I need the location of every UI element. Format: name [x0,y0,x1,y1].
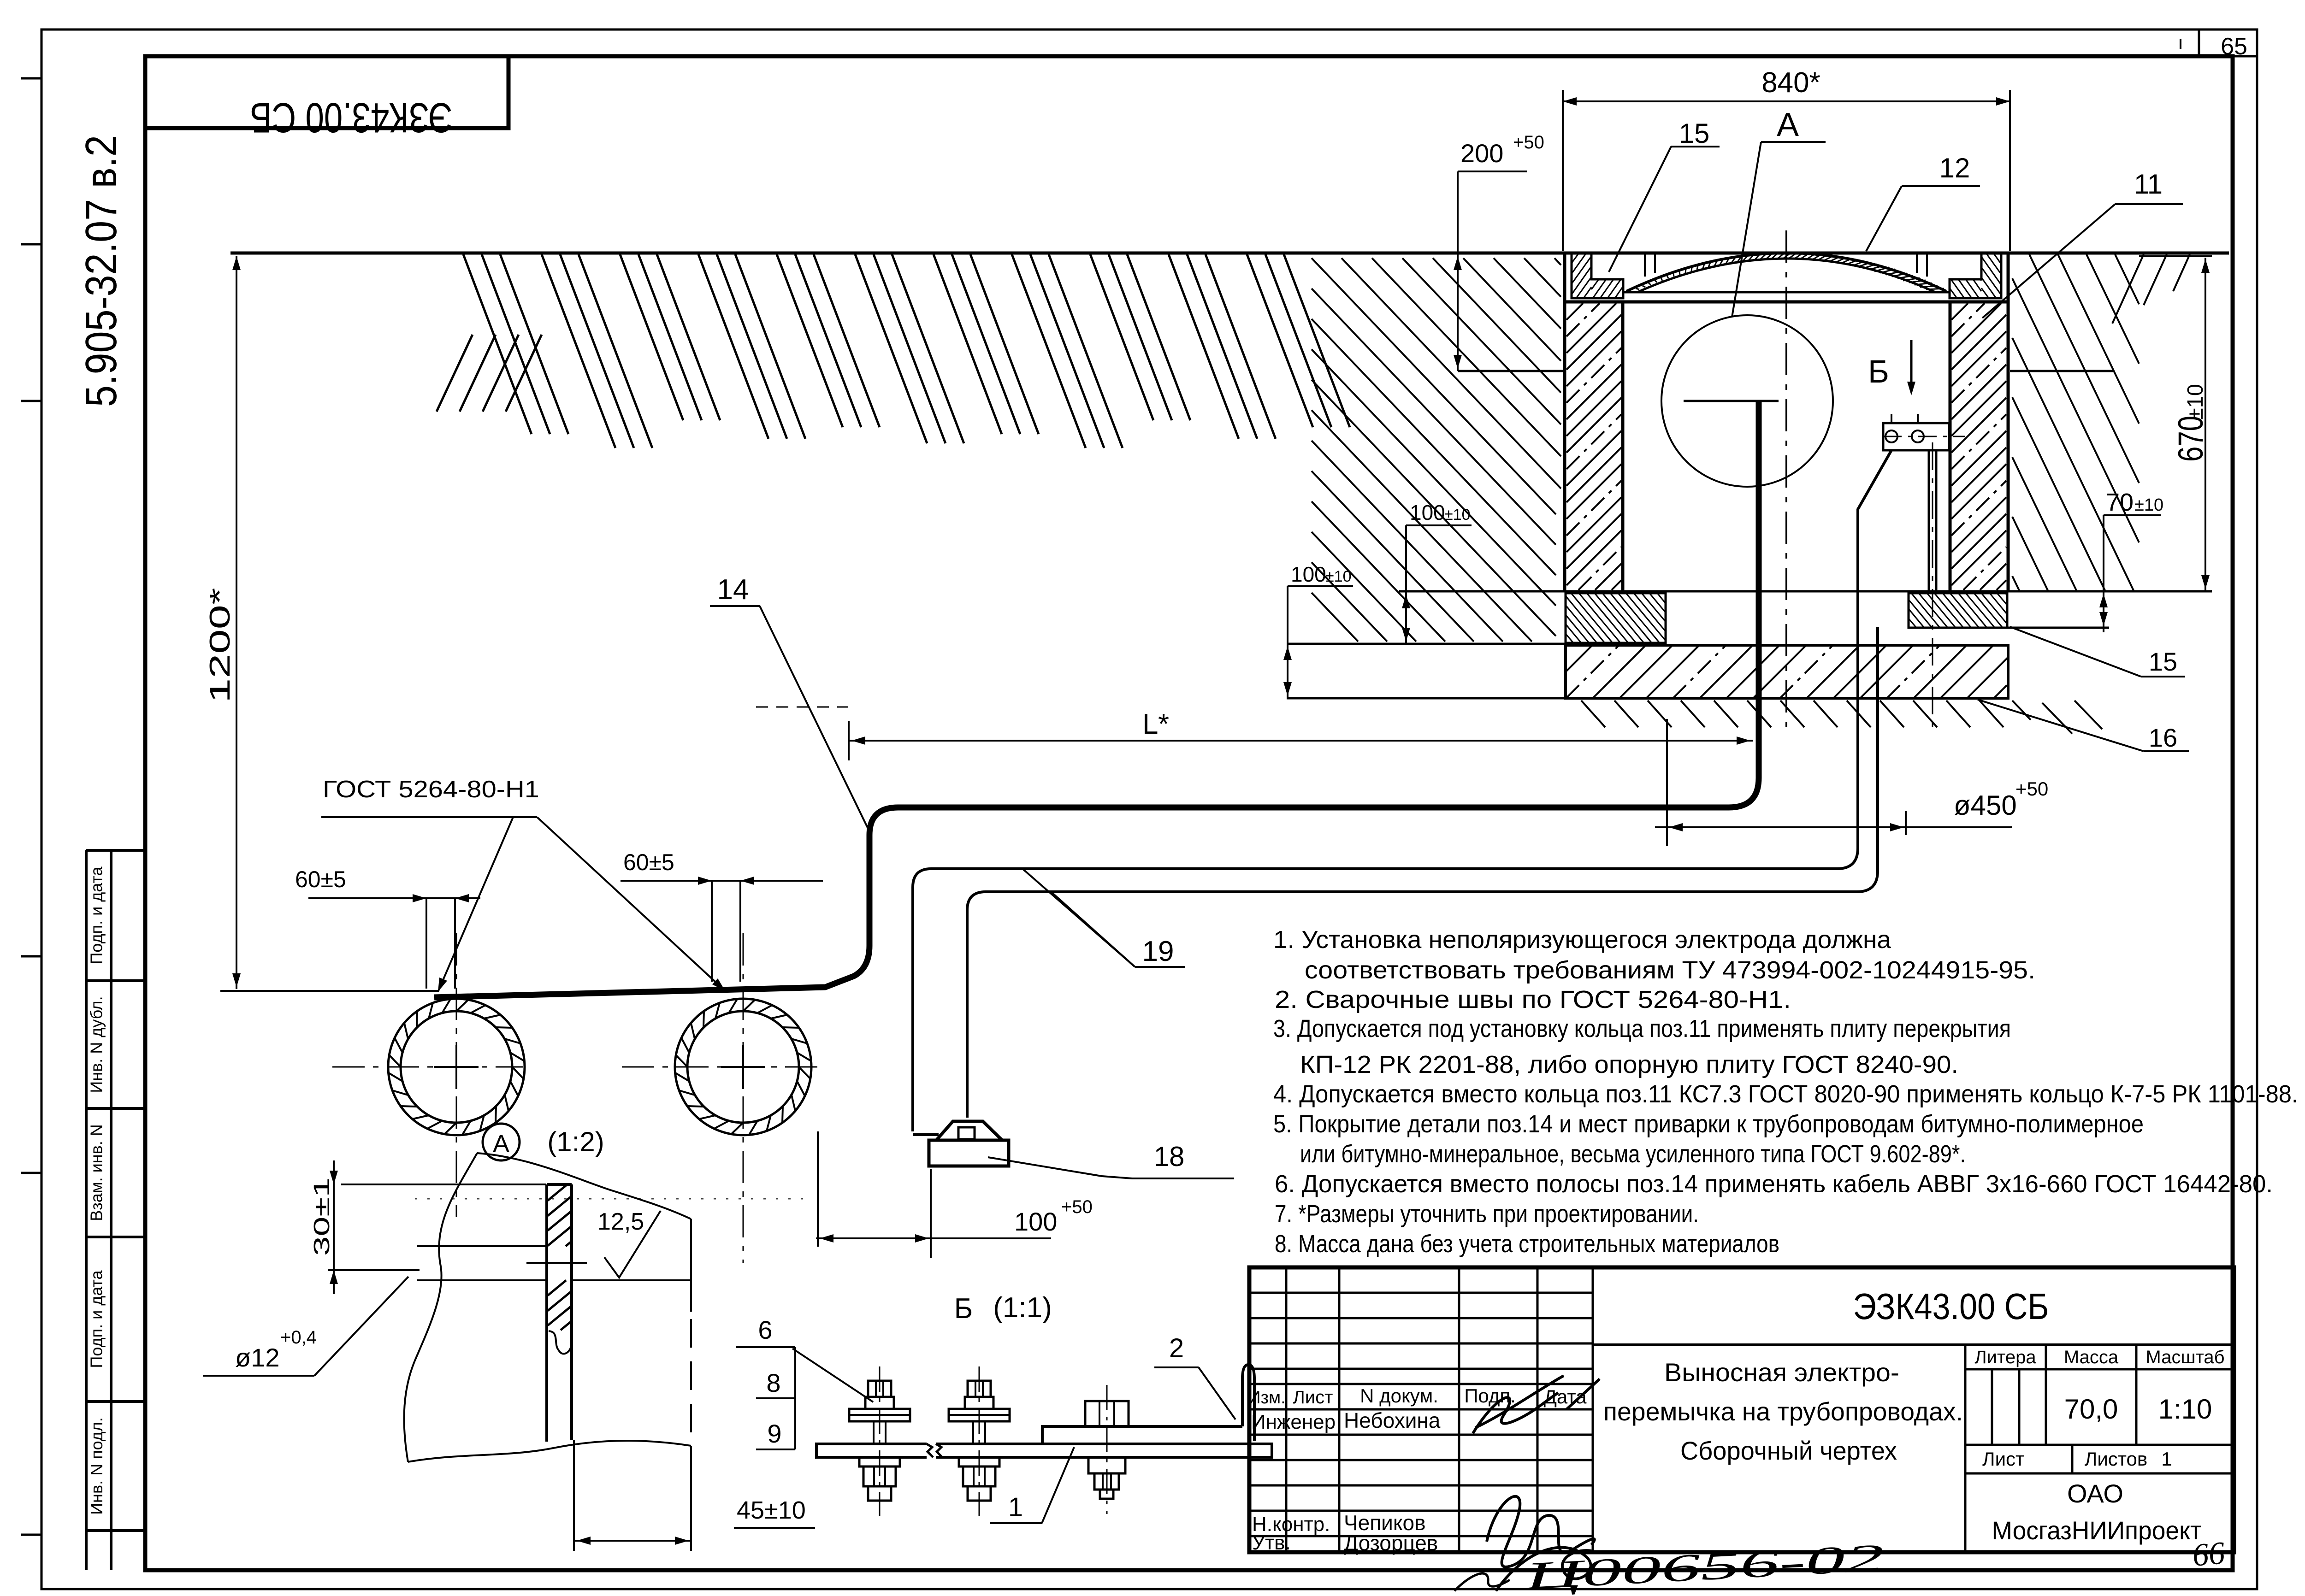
svg-text:12: 12 [1939,153,1970,183]
dimension L* [756,707,1753,760]
detail A label [483,1124,604,1160]
svg-text:Литера: Литера [1974,1347,2036,1367]
svg-text:Подп.: Подп. [1464,1385,1516,1407]
svg-text:11: 11 [2134,169,2163,200]
levelling pad 15 under right wall [1909,593,2007,628]
svg-text:*: * [1158,708,1169,740]
pipe centerlines [332,933,824,1263]
bolt assembly right [1085,1385,1129,1514]
section arrow B [1868,340,1915,395]
svg-text:45±10: 45±10 [737,1496,806,1524]
handwritten inventory number [1523,1535,2226,1596]
concrete ring 11 right wall [1950,254,2008,591]
position labels 6 8 9 [736,1315,873,1449]
vertical document code 5.905-32.07 v.2 [77,135,126,407]
svg-text:1: 1 [2161,1448,2172,1470]
svg-text:7. *Размеры уточнить при проек: 7. *Размеры уточнить при проектировании. [1275,1200,1699,1228]
svg-text:15: 15 [2149,647,2177,676]
svg-text:Взам. инв. N: Взам. инв. N [87,1124,106,1221]
dimension D450+50 [1655,719,2048,846]
wire 19 lower [967,627,1878,1118]
svg-text:100: 100 [1291,562,1326,586]
svg-text:Лист: Лист [1982,1448,2024,1470]
detail A pipe centerline [690,1219,692,1551]
svg-text:2: 2 [1169,1333,1184,1363]
label 14 with leader [710,574,869,830]
dimension 200+50 [1454,132,1544,371]
dimension 100+50 at electrode [816,1131,1093,1258]
soil hatch left band [437,254,1350,448]
label 15 top [1609,118,1720,272]
svg-text:или битумно-минеральное, весьм: или битумно-минеральное, весьма усиленно… [1300,1140,1966,1168]
svg-text:А: А [493,1130,509,1158]
left stamp column boxes [86,850,145,1570]
svg-text:Инв. N дубл.: Инв. N дубл. [87,996,106,1093]
svg-text:±10: ±10 [2134,495,2163,515]
ring bottom line [1399,590,2212,593]
svg-text:ЭЗК43.00 СБ: ЭЗК43.00 СБ [250,94,453,141]
svg-text:Масштаб: Масштаб [2145,1347,2224,1367]
svg-text:Подп. и дата: Подп. и дата [87,866,106,964]
detail A hole centerline [526,1262,587,1264]
svg-text:200: 200 [1460,139,1503,168]
svg-text:ГОСТ 5264-80-Н1: ГОСТ 5264-80-Н1 [323,776,539,803]
soil hatch right of well [2012,254,2190,734]
dimension 45±10 [574,1440,815,1551]
pipe right [675,999,811,1135]
svg-text:МосгазНИИпроект: МосгазНИИпроект [1992,1516,2202,1545]
svg-text:5.905-32.07 в.2: 5.905-32.07 в.2 [77,135,126,407]
svg-text:+50: +50 [2015,778,2048,800]
label 16 [1978,700,2189,752]
svg-text:2. Сварочные швы по ГОСТ 5264-: 2. Сварочные швы по ГОСТ 5264-80-Н1. [1275,986,1791,1013]
svg-text:Сборочный чертех: Сборочный чертех [1680,1436,1897,1465]
svg-text:14: 14 [717,574,749,606]
svg-text:L: L [1142,708,1158,740]
label 19 with leaders [1022,869,1185,967]
dimension 670±10 [2139,256,2212,591]
pit floor lines [1458,370,2114,372]
electrode 18 body [913,1121,1009,1166]
detail A strip cross-section [417,1184,691,1442]
label 15 lower right [2010,627,2185,677]
svg-text:Небохина: Небохина [1344,1408,1441,1432]
svg-text:4. Допускается вместо кольца п: 4. Допускается вместо кольца поз.11 КС7.… [1273,1080,2298,1108]
svg-text:соответствовать требованиям ТУ: соответствовать требованиям ТУ 473994-00… [1305,956,2035,984]
label A with leader [1732,106,1826,317]
svg-text:840*: 840* [1761,67,1820,99]
ground surface line [230,252,2229,255]
signature scribbles [1454,1376,1600,1591]
svg-text:±10: ±10 [1444,506,1470,524]
svg-text:5. Покрытие детали поз.14 и ме: 5. Покрытие детали поз.14 и мест приварк… [1273,1110,2144,1138]
svg-text:16: 16 [2149,723,2177,752]
svg-text:66: 66 [2191,1535,2226,1573]
svg-text:(1:2): (1:2) [547,1126,604,1157]
dome edge keys [1645,253,1927,277]
svg-text:Подп. и дата: Подп. и дата [87,1270,106,1368]
svg-text:12,5: 12,5 [597,1208,644,1235]
svg-text:1: 1 [1008,1492,1023,1522]
label 2 with leader [1154,1333,1235,1419]
document number cell [1593,1286,2234,1345]
svg-text:1. Установка неполяризующегося: 1. Установка неполяризующегося электрода… [1273,926,1891,954]
roughness 12,5 [597,1208,661,1278]
concrete ring 11 left wall [1565,254,1623,591]
ring top slab lines [1565,292,2008,302]
title name cell [1603,1345,1965,1552]
svg-text:Выносная электро-: Выносная электро- [1664,1358,1899,1387]
dimension 70±10 [2099,489,2163,632]
svg-text:(1:1): (1:1) [993,1292,1052,1324]
svg-text:65: 65 [2221,33,2247,60]
sheet number cell 65 top right [2181,29,2247,60]
soil hatch below base slab [1581,701,2004,727]
revision table header texts [1248,1385,1587,1408]
base slab 16 [1566,645,2008,698]
well centerline [1785,230,1787,728]
svg-text:±10: ±10 [1325,568,1351,585]
manhole cover dome 12 [1626,253,1946,292]
svg-text:±10: ±10 [2183,384,2208,420]
svg-text:70,0: 70,0 [2064,1394,2118,1425]
list row [1965,1445,2234,1473]
svg-text:19: 19 [1142,936,1174,967]
svg-text:15: 15 [1679,118,1710,149]
svg-text:670: 670 [2171,416,2210,462]
svg-text:100: 100 [1014,1207,1057,1236]
svg-text:70: 70 [2106,489,2134,516]
svg-text:Инв. N подл.: Инв. N подл. [87,1417,106,1515]
svg-text:Изм.: Изм. [1248,1388,1285,1408]
levelling pad 15 under left wall [1566,593,1666,643]
lower strip 1 [816,1444,1272,1457]
bolt assembly left [849,1366,910,1516]
svg-text:9: 9 [767,1419,781,1448]
organisation cell [1992,1479,2202,1545]
svg-text:3. Допускается под установку к: 3. Допускается под установку кольца поз.… [1273,1015,2011,1042]
svg-text:ø12: ø12 [235,1343,280,1372]
svg-text:Масса: Масса [2064,1347,2119,1367]
dimension 60±5 left [295,866,480,989]
svg-text:перемычка на трубопроводах.: перемычка на трубопроводах. [1603,1397,1963,1426]
soil hatch beside well left (deep area) [1312,258,1561,642]
svg-text:60±5: 60±5 [623,849,674,875]
svg-text:8: 8 [766,1368,780,1397]
svg-text:Утв.: Утв. [1252,1531,1291,1554]
centering marks left edge [21,78,41,1535]
pipe left [388,999,525,1135]
top-left stamp box with inverted doc number [145,56,508,141]
dimension d12 with leader [203,1277,408,1376]
svg-text:ø450: ø450 [1954,790,2017,821]
faint dotted remnant [415,1198,811,1200]
label 11 with leader [1982,169,2183,318]
detail A break outline [404,1153,691,1462]
electrode view circle A [1661,315,1833,487]
dimension 60±5 right [621,849,823,982]
svg-text:КП-12 РК 2201-88, либо опорную: КП-12 РК 2201-88, либо опорную плиту ГОС… [1300,1051,1958,1078]
detail B title [954,1292,1052,1325]
svg-text:6. Допускается вместо полосы п: 6. Допускается вместо полосы поз.14 прим… [1275,1170,2273,1198]
svg-text:1:10: 1:10 [2158,1394,2212,1425]
svg-text:1200*: 1200* [204,588,236,703]
terminal plate with bolts (detail B target) [1883,414,1965,450]
cover support element 15 left [1572,253,1623,298]
cover support element 15 right [1950,253,2001,298]
dimension 30±1 [310,1160,546,1294]
svg-text:ОАО: ОАО [2067,1479,2123,1508]
dimension 100±10 upper [1402,501,1472,644]
svg-text:Листов: Листов [2085,1448,2147,1470]
wire 19 upper [913,450,1891,1131]
svg-text:ЭЗК43.00 СБ: ЭЗК43.00 СБ [1853,1286,2049,1327]
svg-text:Б: Б [1868,353,1889,389]
svg-text:30±1: 30±1 [310,1178,334,1256]
svg-text:+50: +50 [1513,132,1544,153]
svg-text:Б: Б [954,1293,973,1325]
label 12 with leader [1866,153,1980,251]
svg-text:8. Масса дана без учета строит: 8. Масса дана без учета строительных мат… [1275,1230,1779,1258]
bolt assembly middle [949,1366,1010,1516]
svg-text:Инженер: Инженер [1251,1411,1336,1433]
signature rows [1251,1408,1441,1555]
svg-text:100: 100 [1410,501,1445,524]
label 18 with leader [988,1141,1234,1178]
svg-text:18: 18 [1154,1141,1185,1172]
dimension 1200* [204,256,438,991]
pad bottom extension lines (100 dims) [1287,628,2109,698]
svg-text:6: 6 [758,1315,772,1344]
svg-text:+50: +50 [1061,1197,1093,1217]
title block revision table [1249,1267,1593,1552]
dimension 840 [1563,67,2010,251]
svg-text:Дозорцев: Дозорцев [1344,1531,1438,1555]
dimension 100±10 lower [1283,562,1353,698]
upper strip with hook 2 [1042,1365,1254,1444]
svg-text:Лист: Лист [1293,1387,1333,1408]
litera massa scale headers [1965,1345,2234,1445]
strip 14 riser inside well [434,402,1759,997]
svg-text:N докум.: N докум. [1360,1385,1438,1407]
technical notes [1273,926,2298,1258]
svg-text:60±5: 60±5 [295,866,346,892]
title block outer [1249,1267,2234,1552]
flat bar 2 inside well [1929,442,1936,733]
svg-text:+0,4: +0,4 [280,1327,317,1348]
label 1 with leader [990,1447,1074,1523]
svg-text:А: А [1777,106,1799,143]
weld spec GOST 5264-80-N1 [321,776,725,992]
